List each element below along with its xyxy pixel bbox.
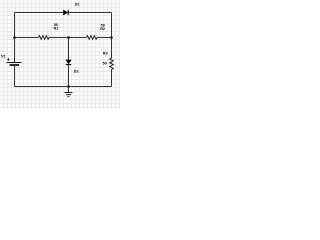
diode D1	[63, 10, 68, 15]
wire left rail upper	[14, 13, 16, 63]
wire bottom rail	[15, 86, 112, 88]
svg-text:V1: V1	[1, 55, 6, 59]
battery plus sign	[7, 58, 9, 60]
node junction bottom	[67, 85, 70, 88]
wire middle branch upper	[68, 38, 70, 60]
resistor R3	[110, 58, 114, 69]
svg-text:D2: D2	[74, 70, 79, 74]
wire right rail upper	[111, 13, 113, 59]
node junction middle	[67, 36, 70, 39]
wire middle branch lower	[68, 65, 70, 87]
wire middle rail R2 to right	[97, 37, 112, 39]
resistor R1	[39, 36, 49, 40]
svg-text:R3: R3	[103, 52, 108, 56]
diode D2	[66, 60, 71, 65]
battery V1	[7, 63, 22, 66]
svg-text:R2: R2	[100, 27, 105, 31]
ground	[65, 87, 73, 97]
svg-text:R1: R1	[54, 27, 59, 31]
wire right rail lower	[111, 69, 113, 86]
node junction right	[110, 36, 113, 39]
svg-text:50: 50	[103, 62, 107, 66]
wire middle rail node to R2	[69, 37, 87, 39]
resistor R2	[87, 36, 97, 40]
wire top rail right segment	[68, 12, 111, 14]
wire middle rail lead to R1	[15, 37, 39, 39]
svg-text:D1: D1	[75, 3, 80, 7]
node junction left	[13, 36, 16, 39]
wire top rail left segment	[15, 12, 64, 14]
wire middle rail R1 to node	[49, 37, 69, 39]
wire left rail lower	[14, 66, 16, 87]
